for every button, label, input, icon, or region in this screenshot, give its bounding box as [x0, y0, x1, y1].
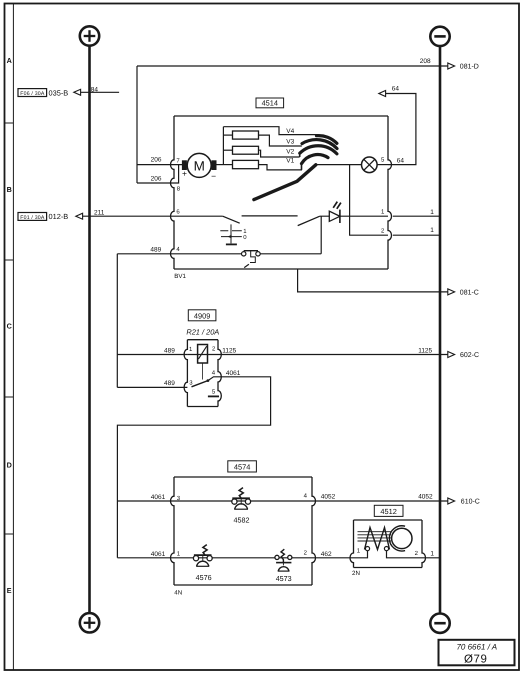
svg-text:4061: 4061: [226, 370, 241, 377]
svg-text:4574: 4574: [234, 463, 250, 472]
wire 1 pin2 to ground bus: [393, 234, 440, 236]
arrow to 602-C: [448, 352, 455, 358]
wire V1: [259, 165, 303, 170]
svg-text:462: 462: [321, 551, 332, 558]
svg-text:602-C: 602-C: [460, 352, 479, 359]
thermal switch 4576: [193, 556, 198, 561]
label 4909: [188, 310, 216, 321]
fuse label F06/30A: [18, 89, 47, 97]
arrow to 081-C: [448, 289, 455, 295]
arrow to 64: [379, 91, 386, 97]
switch blade b: [298, 216, 320, 225]
contact arc V4: [317, 136, 337, 144]
selector wiper blade: [254, 165, 316, 200]
arrow to 610-C: [448, 498, 455, 504]
wire wiper to lamp: [316, 164, 362, 166]
wire junction down to pin 2: [350, 165, 388, 236]
arrow to 035-B: [74, 89, 81, 95]
wire 4052 to 610-C: [312, 500, 448, 502]
wire 1 pin1 to ground bus: [393, 215, 440, 217]
ground minus terminal top right: [430, 27, 449, 46]
wire bottom row: [174, 557, 312, 559]
svg-text:489: 489: [164, 348, 175, 355]
wire 4061 from relay pin 4: [117, 377, 270, 558]
svg-text:A: A: [7, 56, 12, 65]
fuse label F01/30A: [18, 213, 47, 221]
thermal switch 4582: [232, 499, 237, 504]
svg-text:610-C: 610-C: [461, 499, 480, 506]
svg-text:206: 206: [151, 157, 162, 164]
heater resistor zigzag: [365, 528, 390, 550]
svg-text:4N: 4N: [174, 590, 182, 597]
pushbutton contact: [242, 252, 246, 256]
label 4574: [228, 461, 257, 472]
LED diode: [329, 211, 340, 221]
svg-text:012-B: 012-B: [49, 212, 69, 221]
svg-text:4512: 4512: [380, 507, 396, 516]
svg-text:4052: 4052: [418, 494, 433, 501]
svg-text:2N: 2N: [352, 570, 360, 577]
wire 489 vertical to relay: [116, 254, 118, 388]
svg-text:F01 / 30A: F01 / 30A: [20, 215, 45, 221]
svg-text:1125: 1125: [418, 348, 432, 355]
svg-text:081-C: 081-C: [460, 290, 479, 297]
indicator lamp: [362, 157, 378, 173]
svg-text:4582: 4582: [234, 516, 250, 525]
svg-text:64: 64: [397, 157, 405, 164]
svg-text:V4: V4: [286, 128, 294, 135]
motor M1 blower: [187, 153, 211, 177]
wire switch middle: [242, 215, 298, 217]
wire 489 to relay pin 3: [117, 386, 187, 388]
wire 1 to ground bus: [422, 557, 440, 559]
arrow to 081-D: [448, 63, 455, 69]
ground bus right: [439, 46, 442, 613]
relay coil: [198, 345, 208, 364]
label 4512: [374, 505, 403, 516]
svg-text:211: 211: [94, 210, 105, 217]
relay contact 5: [208, 395, 219, 397]
component box 4514/BV1: [174, 115, 388, 117]
wire 489 to relay pin 1: [117, 354, 187, 356]
svg-text:4909: 4909: [194, 311, 210, 320]
svg-text:035-B: 035-B: [49, 88, 69, 97]
wire 489 pin4 row with pushbutton: [117, 253, 241, 255]
svg-text:206: 206: [151, 176, 162, 183]
wire top row: [174, 500, 312, 502]
contact arc V1: [301, 164, 303, 170]
wire V2: [259, 150, 300, 157]
wire 081-C from box bottom: [298, 269, 448, 292]
svg-text:−: −: [211, 171, 216, 181]
svg-text:F06 / 30A: F06 / 30A: [20, 91, 45, 97]
wire 206 to pin 8: [137, 165, 179, 183]
svg-text:V2: V2: [286, 149, 294, 156]
svg-text:4061: 4061: [151, 551, 166, 558]
resistor R2: [233, 146, 259, 154]
svg-text:081-D: 081-D: [460, 64, 479, 71]
svg-text:489: 489: [150, 247, 161, 254]
title block: [439, 640, 515, 666]
svg-text:4052: 4052: [321, 494, 336, 501]
arrow to 012-B: [76, 213, 83, 219]
svg-text:E: E: [7, 586, 12, 595]
wire 64 up from pin 5: [386, 94, 416, 165]
wire V3: [259, 135, 302, 146]
wire 206 feed vertical: [136, 66, 138, 183]
svg-text:C: C: [7, 322, 12, 331]
wire 211 to pin 6: [83, 215, 174, 217]
relay link coil to contact: [202, 363, 204, 380]
svg-text:84: 84: [91, 86, 99, 93]
heater element wires inside 4512: [354, 551, 368, 558]
wire pin6 to switch: [174, 215, 223, 217]
switch blade a: [223, 216, 240, 223]
svg-text:BV1: BV1: [174, 273, 186, 280]
wire diode row: [320, 215, 388, 217]
svg-text:1: 1: [430, 227, 434, 234]
resistor R3: [233, 160, 259, 168]
wire motor to resistor rail: [217, 164, 233, 166]
wire 1125 to 602-C: [218, 354, 448, 356]
battery plus terminal top left: [80, 26, 99, 45]
plus supply bus left: [88, 46, 91, 613]
wire 4061 branch to pin 3 of 4574: [117, 500, 174, 502]
resistor rail node: [222, 127, 224, 165]
ground minus terminal bottom right: [430, 614, 449, 633]
svg-text:489: 489: [164, 380, 175, 387]
wire 4061 branch to pin 1 of 4574: [117, 557, 174, 559]
svg-text:1: 1: [430, 209, 434, 216]
label 4514: [256, 98, 284, 108]
wire V4: [223, 127, 318, 135]
position indicator 1/0: [230, 224, 232, 243]
svg-text:64: 64: [392, 85, 400, 92]
wire lamp to pin 5: [377, 164, 388, 166]
svg-text:1: 1: [430, 551, 434, 558]
svg-text:4573: 4573: [276, 574, 292, 583]
svg-text:4061: 4061: [151, 494, 166, 501]
relay contact blade: [192, 381, 208, 387]
svg-text:4576: 4576: [196, 573, 212, 582]
wire 462: [312, 557, 354, 559]
svg-text:+: +: [182, 169, 187, 179]
svg-text:V1: V1: [286, 158, 294, 165]
svg-text:70 6661 / A: 70 6661 / A: [456, 643, 497, 652]
svg-text:M: M: [194, 158, 205, 173]
svg-text:R21 / 20A: R21 / 20A: [186, 327, 219, 336]
wire through coil: [187, 354, 218, 356]
contact arc V2: [299, 153, 301, 157]
relay K1 box 4909: [187, 339, 218, 341]
thermal switch 4573: [275, 555, 279, 559]
wire 206 to pin 7: [137, 164, 182, 166]
svg-text:V3: V3: [286, 139, 294, 146]
svg-text:D: D: [7, 460, 12, 469]
contact arc V3: [302, 140, 337, 149]
heater unit box 4512: [354, 519, 423, 521]
wire 84: [81, 91, 120, 93]
heater assembly box 4574: [174, 476, 312, 478]
svg-text:208: 208: [420, 58, 431, 65]
wire blade pivot down to pushbutton row: [320, 216, 322, 254]
resistor R1: [233, 131, 259, 139]
svg-text:Ø79: Ø79: [464, 653, 488, 665]
svg-text:1125: 1125: [222, 348, 236, 355]
wire 208 to ground: [137, 65, 448, 67]
svg-text:B: B: [7, 185, 12, 194]
battery plus terminal bottom left: [80, 613, 99, 632]
svg-text:4514: 4514: [262, 99, 278, 108]
blower circle 4512: [392, 528, 412, 548]
